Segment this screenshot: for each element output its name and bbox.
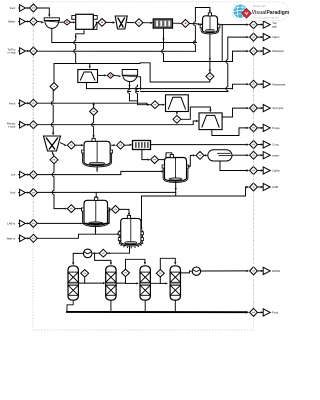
hop recycle over feed row bbox=[52, 101, 54, 105]
svg-text:Lights: Lights bbox=[272, 169, 280, 173]
wire V3 -> crusher bbox=[70, 21, 73, 23]
wire V13 -> reactor R1 left bbox=[76, 144, 82, 146]
valve V20 bbox=[99, 249, 107, 257]
valve V23 bbox=[156, 270, 164, 277]
wire input->valve (y=124.7) bbox=[25, 124, 28, 126]
hop dome bottoms over L91 bbox=[129, 90, 131, 94]
column C4 bbox=[170, 266, 180, 300]
valve V10 bbox=[151, 101, 159, 109]
wire V22 -> C3 top bbox=[126, 259, 145, 269]
svg-text:RDPE: RDPE bbox=[272, 269, 280, 273]
wire C3 side -> valve V23 bbox=[150, 277, 160, 283]
output connector (y=144.5) bbox=[263, 141, 270, 148]
wire C1 side -> valve V21 bbox=[78, 278, 84, 284]
wire riser to wastewater out bbox=[233, 51, 247, 61]
wire C4 bottoms bbox=[174, 300, 176, 312]
wire input->valve (y=8.0) bbox=[25, 7, 28, 9]
wire V9 -> separator dome bbox=[114, 74, 119, 77]
wire C2 bottoms bbox=[110, 300, 112, 312]
wire W1 -> valve V9 bbox=[98, 74, 105, 76]
valve V6 bbox=[182, 20, 190, 28]
wire W1 bottoms L88 bbox=[87, 83, 233, 89]
wire recycle west bbox=[140, 63, 210, 82]
input connector (y=103.2) bbox=[18, 102, 20, 104]
Visual Paradigm logo bbox=[232, 2, 289, 21]
wire valve->connector (y=37.1) bbox=[258, 36, 261, 38]
wire water-strip row -> R4 left bbox=[38, 234, 118, 238]
svg-text:Prod: Prod bbox=[272, 311, 278, 315]
valve diamond (inlet y=124.7) bbox=[30, 121, 38, 129]
wire crusher -> valve V4 bbox=[96, 21, 98, 23]
heater HX1 (box with trapezoid) bbox=[166, 95, 189, 112]
wire lye row -> reactor R2 left bbox=[38, 171, 162, 174]
output connector (y=187.0) bbox=[263, 183, 270, 190]
wire feed row east bbox=[38, 103, 150, 105]
valve diamond (inlet y=174.6) bbox=[30, 171, 38, 179]
separator dome S1 bbox=[122, 70, 137, 76]
outlet valve diamond (y=170.5) bbox=[250, 167, 258, 175]
reactor R1 bbox=[84, 141, 110, 165]
hop dome2 over L91 bbox=[137, 90, 139, 94]
svg-text:Conc.: Conc. bbox=[272, 143, 280, 147]
hop crusher drop over line A bbox=[75, 41, 77, 45]
svg-text:LAB st: LAB st bbox=[7, 222, 15, 226]
wire R4 bottoms -> pump row bbox=[108, 246, 130, 253]
svg-text:e acid: e acid bbox=[8, 124, 16, 128]
valve V13 bbox=[67, 141, 75, 149]
input connector (y=174.6) bbox=[18, 174, 20, 176]
output connector (y=312.4) bbox=[263, 309, 270, 316]
wire valve->connector (y=155.2) bbox=[258, 154, 261, 156]
wire pump P2 -> RDPE out bbox=[201, 270, 247, 272]
valve diamond (inlet y=103.2) bbox=[30, 99, 38, 107]
hop V15 line over acid row bbox=[53, 191, 55, 195]
svg-text:Vent gas: Vent gas bbox=[272, 106, 283, 110]
output connector (y=127.9) bbox=[263, 124, 270, 131]
wire R3 -> valve V19 bbox=[108, 208, 111, 210]
input connector (y=192.6) bbox=[18, 192, 20, 194]
wire V14 -> exchanger E2 bbox=[125, 144, 130, 146]
diagram boundary (dashed battery-limit box) bbox=[33, 2, 254, 330]
svg-text:Watr st: Watr st bbox=[7, 236, 16, 240]
valve V21 bbox=[81, 270, 89, 277]
exchanger E2 (striped) bbox=[133, 141, 151, 150]
wire E2 bottoms -> valve V17 bbox=[142, 150, 148, 160]
wire C3->C4 feed bbox=[160, 282, 165, 284]
valve V12 bbox=[173, 115, 181, 123]
svg-text:Inert: Inert bbox=[10, 6, 16, 10]
wire input->valve (y=174.6) bbox=[25, 174, 28, 176]
hop vapor riser over furnace line bbox=[227, 60, 229, 64]
wire V6 -> tank T1 left bbox=[190, 23, 198, 26]
wire bus1 -> R3 top bbox=[95, 192, 97, 196]
wire pump P1 -> column C1 top bbox=[73, 253, 83, 262]
hop V15 line over lye row bbox=[53, 173, 55, 177]
hop riser x195 over tank feed bbox=[194, 22, 196, 26]
output connector (y=51.1) bbox=[263, 48, 270, 55]
outlet valve diamond (y=312.4) bbox=[250, 308, 258, 316]
grinder X1 (trapezoid with X) bbox=[115, 16, 127, 29]
output connector (y=270.9) bbox=[263, 267, 270, 274]
valve V15 bbox=[50, 156, 58, 164]
svg-text:water: water bbox=[272, 153, 279, 157]
wire V19 -> reactor R4 top bbox=[120, 209, 129, 213]
wire valve->connector (y=127.9) bbox=[258, 127, 261, 129]
wire valve->connector (y=312.4) bbox=[258, 311, 261, 313]
hop recycle over recycle-acid row bbox=[52, 123, 54, 127]
wire recycle west 2 bbox=[54, 64, 140, 83]
valve V18 bbox=[196, 152, 204, 160]
valve V14 bbox=[117, 141, 125, 149]
wire bus1-bus2 link bbox=[175, 192, 177, 196]
valve V19 bbox=[112, 206, 120, 214]
valve V16 bbox=[67, 205, 75, 213]
svg-text:Water: Water bbox=[8, 20, 15, 24]
wire valve->connector (y=24.6) bbox=[258, 24, 261, 26]
outlet valve diamond (y=127.9) bbox=[250, 124, 258, 132]
column C3 bbox=[140, 266, 150, 300]
valve diamond (inlet y=8.0) bbox=[30, 4, 38, 12]
outlet valve diamond (y=155.2) bbox=[250, 151, 258, 159]
svg-text:gas: gas bbox=[272, 24, 277, 28]
wire input->valve (y=192.6) bbox=[25, 192, 28, 194]
wire L91 riser to vapor out bbox=[228, 37, 247, 91]
outlet valve diamond (y=84.2) bbox=[250, 80, 258, 88]
hop reactor feed over recycle row bbox=[93, 123, 95, 127]
flash drum D1 (horizontal capsule) bbox=[208, 150, 232, 161]
outlet valve diamond (y=187.0) bbox=[250, 183, 258, 191]
valve V11 (reactor feed) bbox=[90, 108, 98, 116]
wire V11 -> reactor R1 top bbox=[93, 115, 95, 135]
input connector (y=51.0) bbox=[18, 50, 20, 52]
svg-text:Wastewtr: Wastewtr bbox=[272, 49, 284, 53]
pump P1 bbox=[83, 249, 92, 258]
tank T1 (agitated vessel) bbox=[203, 16, 218, 33]
outlet valve diamond (y=270.9) bbox=[250, 267, 258, 275]
wire tank bottoms bbox=[209, 34, 211, 72]
outlet valve diamond (y=37.1) bbox=[250, 33, 258, 41]
wire mixer bottoms line A bbox=[52, 28, 196, 42]
mixer X2 (trapezoid with X) bbox=[44, 136, 61, 151]
outlet valve diamond (y=144.5) bbox=[250, 141, 258, 149]
wire tank T1 tops -> top gas out bbox=[221, 24, 247, 26]
wire X2 bottoms -> valve V15 bbox=[51, 151, 54, 154]
svg-text:Lye: Lye bbox=[11, 173, 16, 177]
wire X2 -> valve V13 bbox=[61, 143, 65, 145]
wire X1 -> valve V5 bbox=[127, 22, 134, 24]
hop furnace drop over line B bbox=[163, 49, 165, 53]
svg-text:m strg: m strg bbox=[8, 51, 16, 55]
valve V8 (recycle) bbox=[50, 83, 58, 91]
wire branch to washer W1 bbox=[89, 64, 91, 67]
input connector (y=8.0) bbox=[18, 7, 20, 9]
wire furnace line east bbox=[164, 61, 233, 63]
valve V17 bbox=[151, 156, 159, 164]
wire inert valve -> mixer top bbox=[38, 8, 49, 15]
outlet valve diamond (y=51.1) bbox=[250, 47, 258, 55]
wire V5 -> furnace bbox=[143, 22, 150, 24]
wire mixer -> valve V3 bbox=[59, 21, 62, 23]
wire V10 -> heater HX1 bbox=[159, 104, 162, 106]
wire input->valve (y=21.5) bbox=[25, 21, 28, 23]
wire V12 -> scrubber HX2 top bbox=[181, 107, 210, 119]
outlet valve diamond (y=108.1) bbox=[250, 104, 258, 112]
wire input->valve (y=223.4) bbox=[25, 222, 28, 224]
svg-text:For non-commercial use: For non-commercial use bbox=[253, 16, 279, 19]
wire R1 bottoms join bbox=[96, 167, 98, 172]
reactor R4 bbox=[121, 218, 141, 244]
valve V3 bbox=[64, 19, 71, 25]
wire drum -> water out bbox=[232, 154, 247, 156]
wire LAB row joins R3 outlet bbox=[38, 209, 109, 223]
wire tank right drop bbox=[221, 25, 223, 62]
output connector (y=84.2) bbox=[263, 81, 270, 88]
wire V17 -> reactor R2 top bbox=[159, 153, 172, 160]
wire HX2 right -> vent out bbox=[222, 108, 246, 117]
wire V18 -> drum D1 bbox=[203, 154, 206, 156]
wire input->valve (y=51.0) bbox=[25, 50, 28, 52]
wire valve->connector (y=170.5) bbox=[258, 170, 261, 172]
valve diamond (inlet y=21.5) bbox=[30, 18, 38, 26]
input connector (y=238.3) bbox=[18, 237, 20, 239]
wire to/from storage line B bbox=[38, 50, 195, 52]
wire C1->C2 feed bbox=[85, 282, 104, 284]
wire dome bottoms bbox=[130, 82, 138, 101]
wire valve->connector (y=187.0) bbox=[258, 186, 261, 188]
svg-text:Made with: Made with bbox=[253, 4, 266, 8]
washer W1 (box with trapezoid) bbox=[78, 70, 98, 83]
reactor R2 bbox=[165, 158, 187, 182]
furnace H1 (striped heater) bbox=[153, 19, 172, 28]
wire valve->connector (y=84.2) bbox=[258, 83, 261, 85]
arrow line A merge bbox=[194, 40, 196, 43]
wire R2 side -> valve V18 bbox=[188, 155, 193, 166]
valve V4 bbox=[98, 19, 106, 27]
wire R1 -> valve V14 bbox=[112, 144, 114, 146]
svg-text:Wastewatr: Wastewatr bbox=[272, 82, 285, 86]
valve diamond (inlet y=223.4) bbox=[30, 219, 38, 227]
wire R3 bottoms join bbox=[95, 226, 97, 234]
crusher B1 (box with rolls) bbox=[72, 16, 76, 20]
hop riser x195 over line A bbox=[194, 41, 196, 45]
wire acid row bus1 bbox=[38, 191, 176, 193]
wire HX2 bottoms -> purge out bbox=[212, 128, 247, 136]
wire bus2 -> HAB out bbox=[142, 187, 247, 196]
hop vapor riser over L88 bbox=[227, 87, 229, 91]
pump P2 bbox=[192, 267, 200, 275]
scrubber HX2 (box with trapezoid) bbox=[199, 113, 222, 130]
valve V22 bbox=[122, 269, 130, 276]
valve column dash line (right) bbox=[253, 29, 255, 309]
wire C4 -> pump P2 bbox=[181, 271, 190, 273]
svg-text:Acid: Acid bbox=[10, 191, 16, 195]
svg-text:Feed: Feed bbox=[9, 101, 16, 105]
wire recycle riser to tank top bbox=[195, 8, 210, 52]
wire V23 -> C4 top bbox=[160, 258, 175, 269]
input connector (y=21.5) bbox=[18, 21, 20, 23]
wire E2 -> conc out bbox=[151, 144, 247, 146]
outlet valve diamond (y=24.6) bbox=[250, 21, 258, 29]
output connector (y=24.6) bbox=[263, 21, 270, 28]
wire C2->C3 feed bbox=[126, 282, 137, 284]
wire valve->connector (y=270.9) bbox=[258, 270, 261, 272]
valve diamond (inlet y=238.3) bbox=[30, 234, 38, 242]
input connector (y=124.7) bbox=[18, 124, 20, 126]
wire V15 down to R3 feed bbox=[54, 164, 65, 209]
valve column dash line (left) bbox=[32, 12, 34, 235]
svg-text:Purge: Purge bbox=[272, 126, 280, 130]
svg-text:HAB: HAB bbox=[272, 185, 278, 189]
hop crusher drop over line B bbox=[75, 49, 77, 53]
valve diamond (inlet y=51.0) bbox=[30, 47, 38, 55]
svg-text:Vapor: Vapor bbox=[272, 35, 279, 39]
wire L91 vapor line bbox=[141, 91, 228, 93]
reactor R3 bbox=[84, 200, 108, 225]
wire furnace -> valve V6 bbox=[173, 22, 181, 24]
wire bus2 drop -> R4 right bbox=[141, 196, 143, 228]
wire valve->connector (y=108.1) bbox=[258, 107, 261, 109]
wire V20 -> pump P1 bbox=[94, 252, 99, 254]
output connector (y=108.1) bbox=[263, 105, 270, 112]
wire HX1 bottoms -> valve V12 bbox=[176, 112, 178, 113]
svg-text:VisualParadigm: VisualParadigm bbox=[252, 10, 290, 16]
valve V5 bbox=[135, 19, 143, 27]
wire dome right outlet bbox=[137, 77, 140, 89]
wire V16 -> reactor R3 bbox=[76, 208, 82, 210]
bold product bus bbox=[67, 311, 246, 313]
column C2 bbox=[106, 266, 116, 300]
valve V7 (tank bottoms) bbox=[206, 73, 214, 81]
wire recycle down to X2 bbox=[52, 90, 54, 133]
wire furnace bottoms drop bbox=[163, 28, 165, 61]
wire valve->connector (y=144.5) bbox=[258, 144, 261, 146]
wire V4 -> grinder X1 bbox=[106, 21, 112, 23]
valve V9 bbox=[107, 73, 114, 79]
wire C3 bottoms bbox=[144, 300, 146, 312]
wire input->valve (y=103.2) bbox=[25, 102, 28, 104]
wire valve->connector (y=51.1) bbox=[258, 50, 261, 52]
output connector (y=170.5) bbox=[263, 167, 270, 174]
input connector (y=223.4) bbox=[18, 222, 20, 224]
wire column bottoms bold product line bbox=[67, 300, 73, 312]
valve diamond (inlet y=192.6) bbox=[30, 189, 38, 197]
wire C2 side -> valve V22 bbox=[116, 277, 125, 283]
wire recycle-acid row -> scrubber left bbox=[38, 121, 196, 125]
column C1 bbox=[68, 266, 78, 300]
wire dome to valve V10 bbox=[138, 85, 148, 105]
hop dome2 over L88 bbox=[137, 87, 139, 91]
mixer M1 (bowl) bbox=[44, 18, 59, 21]
wire crusher bottoms drop bbox=[76, 29, 84, 63]
wire R2 bottoms bbox=[175, 182, 177, 193]
output connector (y=37.1) bbox=[263, 34, 270, 41]
wire feed branch down bbox=[93, 104, 95, 107]
wire water valve -> mixer left bbox=[38, 21, 42, 23]
wire drum bottoms -> lights out bbox=[220, 161, 247, 171]
wire branch -> column C2 top bbox=[95, 253, 111, 262]
output connector (y=155.2) bbox=[263, 152, 270, 159]
wire input->valve (y=238.3) bbox=[25, 237, 28, 239]
wire L88 riser to wastewater2 out bbox=[233, 84, 247, 88]
